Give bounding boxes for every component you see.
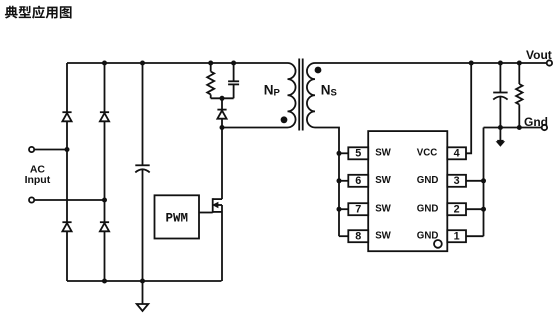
svg-text:3: 3 (454, 175, 460, 187)
svg-text:GND: GND (417, 231, 439, 242)
svg-text:SW: SW (375, 231, 391, 242)
svg-text:8: 8 (355, 231, 361, 243)
svg-text:7: 7 (355, 204, 361, 216)
svg-text:PWM: PWM (166, 212, 189, 226)
svg-text:Gnd: Gnd (524, 115, 548, 129)
svg-text:6: 6 (355, 175, 361, 187)
svg-text:GND: GND (417, 204, 439, 215)
svg-text:Vout: Vout (526, 48, 552, 62)
svg-text:GND: GND (417, 175, 439, 186)
svg-text:2: 2 (454, 204, 460, 216)
svg-text:SW: SW (375, 204, 391, 215)
svg-text:4: 4 (454, 148, 460, 160)
svg-text:SW: SW (375, 148, 391, 159)
svg-text:1: 1 (454, 231, 460, 243)
svg-text:VCC: VCC (417, 148, 437, 159)
svg-text:5: 5 (355, 148, 361, 160)
svg-text:SW: SW (375, 175, 391, 186)
svg-text:Input: Input (25, 174, 51, 186)
